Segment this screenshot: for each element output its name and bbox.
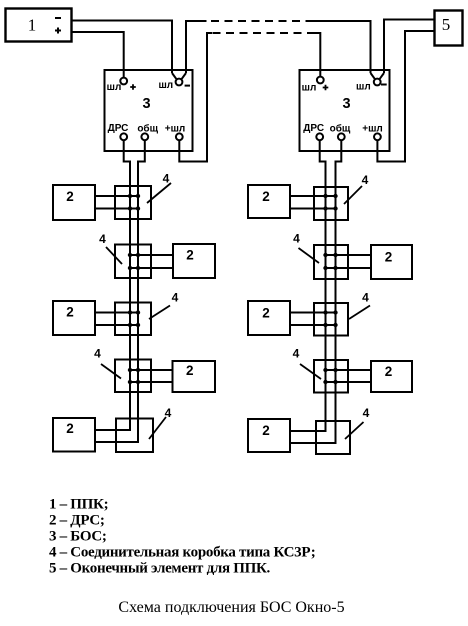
svg-text:2: 2 [66,421,74,436]
svg-text:4: 4 [94,347,101,361]
svg-text:+шл: +шл [165,124,186,135]
svg-text:4: 4 [293,347,300,361]
svg-text:4 – Соединительная коробка тип: 4 – Соединительная коробка типа КС3Р; [49,545,316,561]
svg-text:2: 2 [186,248,194,263]
svg-text:4: 4 [363,406,370,420]
svg-text:5 – Оконечный элемент для ППК.: 5 – Оконечный элемент для ППК. [49,561,271,577]
svg-text:4: 4 [163,172,170,186]
svg-text:шл: шл [107,82,122,93]
svg-text:2: 2 [262,423,270,438]
svg-text:шл: шл [302,83,317,94]
svg-text:общ: общ [137,123,158,135]
svg-text:3: 3 [342,96,350,112]
svg-text:+шл: +шл [362,124,383,135]
svg-text:4: 4 [165,406,172,420]
svg-text:2 – ДРС;: 2 – ДРС; [49,513,105,529]
svg-text:3: 3 [142,96,150,112]
svg-text:шл: шл [356,82,371,93]
svg-text:3 – БОС;: 3 – БОС; [49,529,107,545]
svg-text:2: 2 [262,189,270,204]
svg-text:2: 2 [66,305,74,320]
svg-text:4: 4 [293,232,300,246]
svg-text:4: 4 [99,232,106,246]
svg-text:2: 2 [385,250,393,265]
svg-text:Схема подключения БОС Окно-5: Схема подключения БОС Окно-5 [118,599,344,616]
svg-text:ДРС: ДРС [303,123,324,134]
svg-text:4: 4 [172,291,179,305]
svg-text:общ: общ [330,123,351,135]
svg-text:1 – ППК;: 1 – ППК; [49,497,108,513]
svg-text:ДРС: ДРС [108,123,129,134]
svg-text:1: 1 [28,15,37,34]
svg-text:2: 2 [66,189,74,204]
svg-text:5: 5 [442,15,451,34]
svg-text:4: 4 [362,291,369,305]
svg-text:шл: шл [158,80,173,91]
svg-text:4: 4 [362,173,369,187]
svg-text:2: 2 [186,363,194,378]
svg-text:2: 2 [262,306,270,321]
svg-text:2: 2 [385,364,393,379]
